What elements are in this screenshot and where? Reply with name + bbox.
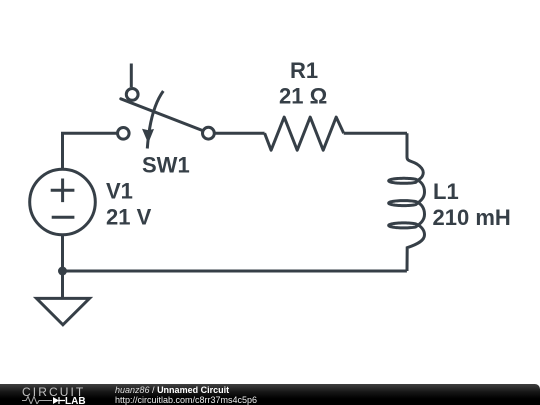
resistor R1 xyxy=(265,117,344,150)
svg-text:L1: L1 xyxy=(433,179,459,204)
node junction xyxy=(58,267,67,276)
footer bar xyxy=(0,384,540,405)
svg-text:LAB: LAB xyxy=(65,396,86,404)
CircuitLab logo xyxy=(22,386,94,404)
label SW1 xyxy=(142,153,190,178)
label V1 value xyxy=(106,179,152,230)
switch SW1 right terminal xyxy=(203,127,215,139)
label R1 value xyxy=(279,58,327,109)
wire xyxy=(130,64,133,88)
svg-text:21 Ω: 21 Ω xyxy=(279,84,327,109)
wire xyxy=(63,270,407,273)
svg-text:210 mH: 210 mH xyxy=(433,205,511,230)
label L1 value xyxy=(433,179,511,230)
wire xyxy=(344,132,407,135)
switch SW1 hinge xyxy=(126,89,138,101)
ground xyxy=(37,298,90,324)
footer text xyxy=(115,386,257,405)
svg-text:SW1: SW1 xyxy=(142,153,190,178)
voltage source V1 xyxy=(30,169,96,235)
wire xyxy=(63,133,118,169)
switch SW1 left terminal xyxy=(118,128,130,140)
inductor L1 xyxy=(389,133,425,271)
svg-text:R1: R1 xyxy=(290,58,318,83)
wire xyxy=(214,132,264,135)
wire xyxy=(61,235,64,298)
svg-text:21 V: 21 V xyxy=(106,205,152,230)
switch SW1 blade xyxy=(121,99,206,132)
switch SW1 actuation arrow xyxy=(142,91,163,149)
svg-text:V1: V1 xyxy=(106,179,133,204)
